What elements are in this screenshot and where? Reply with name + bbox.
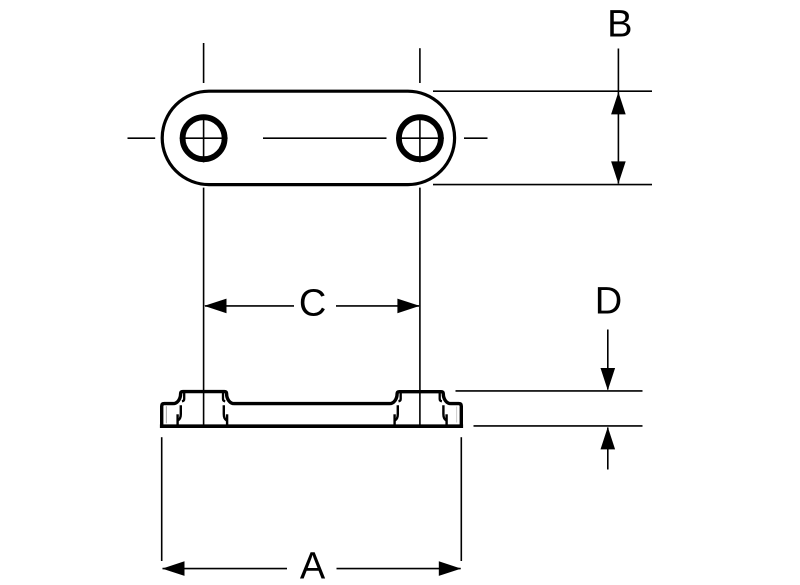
left boss lower-right tangent hook (224, 405, 227, 420)
right boss upper-left tangent hook (399, 392, 401, 401)
right boss lower-right tangent hook (443, 405, 446, 420)
dimension A line left with arrow (163, 568, 288, 570)
left boss upper-left tangent hook (182, 392, 184, 401)
dimension D lower leader with arrow up (607, 428, 609, 470)
faint tangent line near plate left end (165, 406, 167, 423)
dimension D upper leader with arrow down (607, 330, 609, 390)
top view: stadium outline (162, 91, 454, 184)
hole left ring (183, 117, 225, 159)
center line horizontal (128, 137, 488, 139)
left boss upper-right tangent hook (223, 392, 225, 401)
right boss upper-right tangent hook (440, 392, 442, 401)
faint tangent line near plate right end (456, 407, 458, 423)
left boss lower-left tangent hook (178, 405, 181, 420)
front view: plate bottom edge (160, 424, 463, 428)
svg-text:C: C (299, 283, 326, 325)
dimension B arrow up (611, 92, 626, 114)
dimension B line (617, 49, 619, 184)
center line vertical right (projection line) (419, 48, 421, 427)
dimension C line right with arrow (336, 305, 419, 307)
dimension A extension line right (460, 437, 462, 561)
right boss lower-left tangent hook (395, 405, 398, 420)
dimension B arrow down (611, 161, 626, 183)
dimension B extension line bottom (433, 184, 652, 186)
dimension A line right with arrow (337, 568, 461, 570)
svg-text:A: A (300, 546, 326, 585)
dimension D extension line bottom (474, 425, 643, 427)
svg-text:D: D (595, 281, 622, 323)
front view: plate and boss outline (162, 392, 462, 427)
dimension A extension line left (161, 437, 163, 561)
dimension B extension line top (433, 90, 652, 92)
hole right ring (399, 117, 441, 159)
svg-text:B: B (607, 4, 632, 46)
dimension D extension line top (456, 390, 643, 392)
center line vertical left (projection line) (203, 43, 205, 427)
dimension C line left with arrow (205, 305, 294, 307)
